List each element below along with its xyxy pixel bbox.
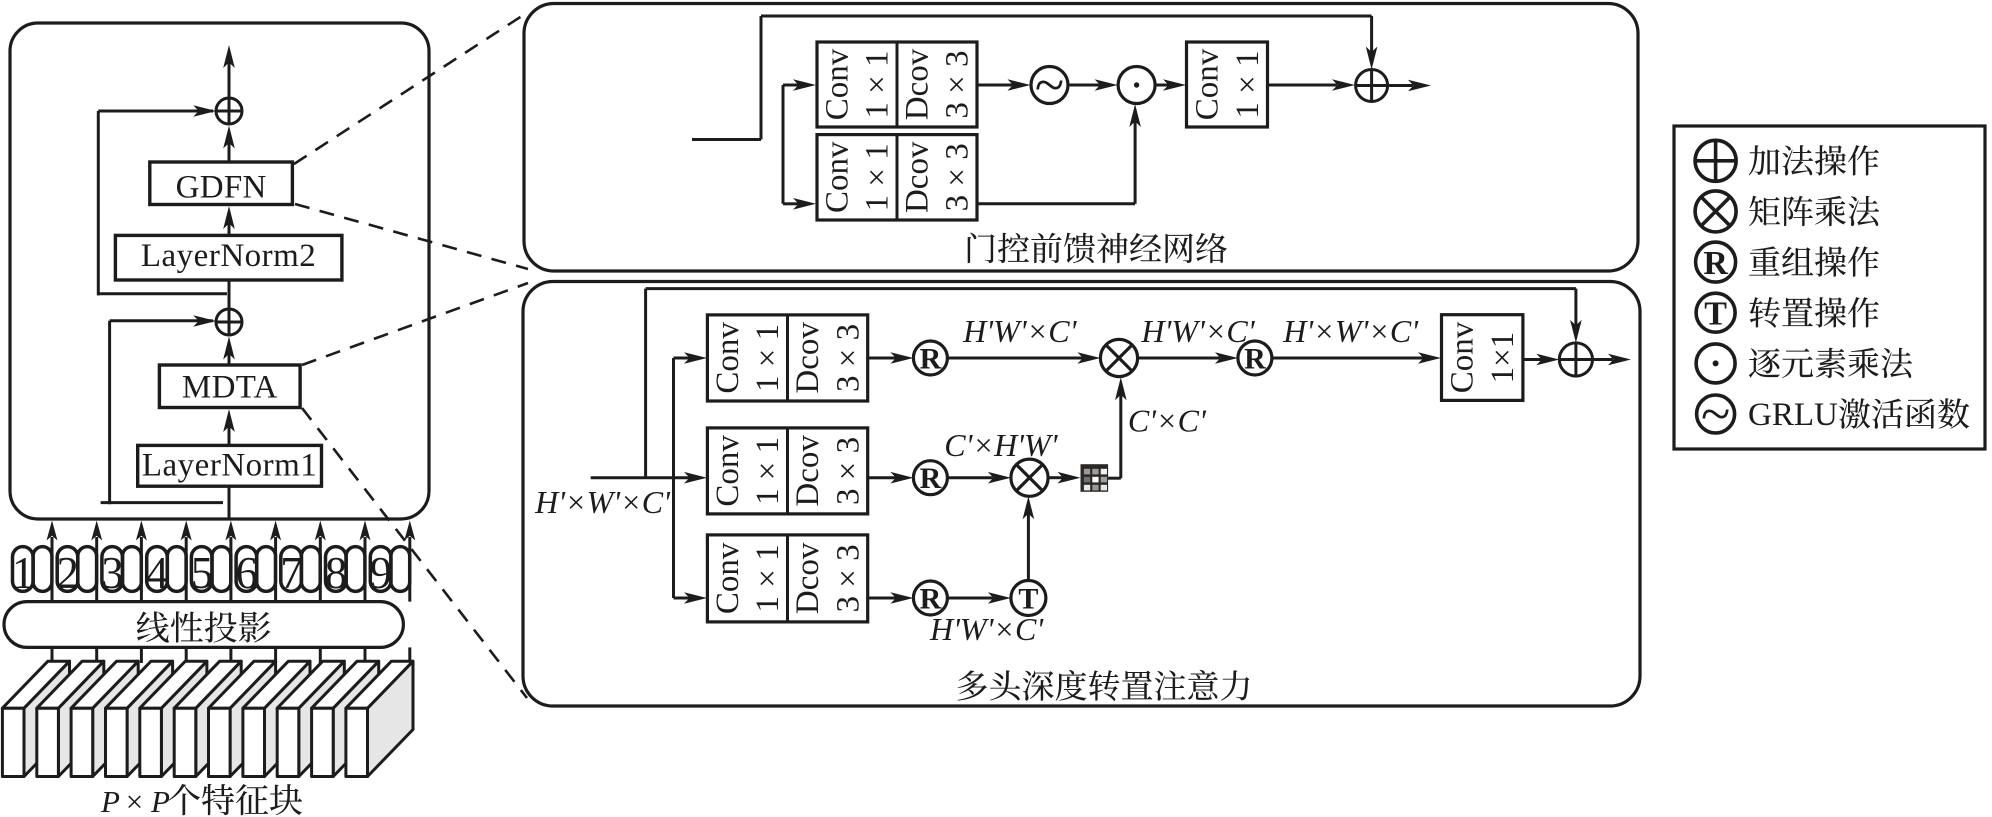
svg-text:3 × 3: 3 × 3	[940, 143, 976, 211]
svg-text:5: 5	[191, 548, 214, 598]
transformer block outer box	[10, 23, 429, 519]
svg-text:GDFN: GDFN	[176, 170, 267, 206]
wire LayerNorm1 to MDTA	[228, 424, 231, 445]
svg-text:×: ×	[126, 784, 143, 817]
svg-text:1 × 1: 1 × 1	[750, 437, 786, 505]
svg-text:Conv: Conv	[1189, 48, 1225, 120]
output Conv1x1 block (MDTA)	[1442, 315, 1523, 401]
svg-text:Dcov: Dcov	[790, 435, 826, 507]
gated feed-forward network box	[524, 4, 1638, 272]
svg-text:1 × 1: 1 × 1	[750, 544, 786, 612]
wires from feature blocks to linear projection	[51, 647, 54, 663]
q Conv1x1 + Dcov3x3 pair	[707, 315, 867, 401]
svg-text:LayerNorm1: LayerNorm1	[142, 448, 317, 484]
svg-text:R: R	[1244, 343, 1266, 376]
wire LayerNorm2 to GDFN	[228, 221, 231, 235]
svg-text:6: 6	[235, 548, 258, 598]
wire upper pair to GELU	[977, 84, 1013, 87]
wire transpose up to matmul2	[1027, 513, 1030, 581]
MDTA bypass top wire	[646, 287, 1576, 290]
svg-text:P: P	[150, 784, 170, 817]
dashed connector GDFN to gated FFN box (upper)	[294, 12, 528, 164]
arrow matmul2 to softmax	[1048, 476, 1063, 479]
svg-text:3 × 3: 3 × 3	[830, 437, 866, 505]
legend row: odot	[1696, 344, 1735, 383]
svg-text:1 × 1: 1 × 1	[1230, 50, 1266, 118]
svg-text:Conv: Conv	[710, 542, 746, 614]
svg-text:H'W'×C': H'W'×C'	[929, 611, 1044, 647]
bypass drop into adder	[1370, 16, 1373, 52]
svg-text:Conv: Conv	[820, 48, 856, 120]
adder node 1 (top)	[216, 98, 242, 124]
caption multi-head depth transposed attention	[958, 670, 987, 700]
svg-text:~: ~	[1035, 55, 1064, 115]
svg-text:R: R	[920, 462, 942, 495]
caption gated feed-forward network	[968, 233, 995, 264]
reshape node R (q)	[913, 341, 947, 375]
svg-text:1×1: 1×1	[1485, 332, 1521, 384]
MDTA block	[159, 365, 300, 408]
svg-text:MDTA: MDTA	[182, 370, 278, 406]
svg-text:3 × 3: 3 × 3	[830, 324, 866, 392]
GDFN block	[150, 162, 293, 205]
svg-text:7: 7	[280, 548, 303, 598]
svg-text:H'×W'×C': H'×W'×C'	[534, 484, 671, 520]
GDFN input wire	[692, 138, 761, 141]
wire matmul1 to reshape2	[1138, 357, 1220, 360]
reshape node R (k)	[913, 461, 947, 495]
lower Conv1x1 + Dcov3x3 pair	[817, 135, 977, 220]
matrix multiply node 2	[1011, 459, 1048, 496]
multi-head transposed attention box	[523, 282, 1640, 707]
transpose node T	[1011, 581, 1046, 616]
svg-text:H'W'×C': H'W'×C'	[1140, 313, 1255, 349]
GDFN bypass top wire	[761, 15, 1372, 18]
svg-text:Conv: Conv	[1444, 321, 1480, 393]
branch riser for q k v	[672, 358, 675, 598]
svg-text:2: 2	[57, 548, 80, 598]
token pills row 1-9	[13, 547, 34, 592]
matrix multiply node 1	[1100, 339, 1137, 376]
softmax attention-map icon	[1081, 464, 1109, 492]
output arrow top	[228, 62, 231, 98]
dashed connector GDFN to gated FFN box (lower)	[295, 204, 528, 269]
MDTA bypass riser	[644, 289, 647, 478]
dashed connector MDTA to attention box (upper)	[302, 283, 528, 365]
arrow v pair to reshape	[868, 597, 896, 600]
wire Conv1x1 to adder	[1268, 84, 1338, 87]
LayerNorm1 block	[138, 445, 322, 486]
svg-text:~: ~	[1701, 384, 1730, 444]
svg-text:R: R	[1703, 245, 1728, 282]
svg-text:Conv: Conv	[710, 322, 746, 394]
svg-text:3 × 3: 3 × 3	[830, 544, 866, 612]
output Conv1x1 block	[1187, 42, 1268, 127]
legend row: tilde	[1697, 395, 1735, 433]
legend row: oplus	[1695, 140, 1736, 181]
wire R to transpose	[947, 597, 993, 600]
wire softmax up to matmul1	[1108, 477, 1121, 480]
wire conv to output adder	[1523, 358, 1542, 361]
svg-text:1 × 1: 1 × 1	[860, 50, 896, 118]
svg-text:4: 4	[146, 548, 169, 598]
svg-text:C'×H'W': C'×H'W'	[944, 427, 1058, 463]
arrow into k conv pair	[674, 476, 691, 479]
svg-text:R: R	[920, 343, 942, 376]
reshape node R (out)	[1238, 341, 1272, 375]
arrow GELU to elementwise-mult	[1068, 84, 1100, 87]
legend row: R	[1696, 242, 1736, 282]
arrow into upper conv pair	[783, 84, 799, 87]
wire MDTA to adder2	[228, 351, 231, 365]
svg-text:3 × 3: 3 × 3	[940, 50, 976, 118]
svg-text:C'×C': C'×C'	[1128, 403, 1207, 439]
svg-text:Conv: Conv	[710, 435, 746, 507]
reshape node R (v)	[913, 581, 947, 615]
v Conv1x1 + Dcov3x3 pair	[707, 535, 867, 622]
svg-text:9: 9	[370, 548, 393, 598]
GDFN output arrow	[1388, 84, 1413, 87]
svg-text:8: 8	[325, 548, 348, 598]
svg-text:3: 3	[101, 548, 124, 598]
token input arrows into transformer block	[51, 537, 54, 602]
svg-text:1 × 1: 1 × 1	[750, 324, 786, 392]
adder node 2	[216, 309, 242, 335]
svg-text:Dcov: Dcov	[790, 542, 826, 614]
arrow mult to Conv1x1	[1155, 84, 1169, 87]
svg-text:Dcov: Dcov	[790, 322, 826, 394]
dashed connector MDTA to attention box (lower)	[302, 408, 527, 698]
wire LayerNorm1 input from bottom	[228, 486, 231, 519]
legend box	[1674, 126, 1985, 449]
wire R to matmul 1	[947, 357, 1083, 360]
wire reshape2 to conv	[1272, 357, 1424, 360]
svg-text:Dcov: Dcov	[900, 48, 936, 120]
svg-text:GRLU: GRLU	[1748, 397, 1838, 433]
wire R to matmul2	[947, 476, 993, 479]
legend row: T	[1696, 293, 1735, 332]
arrow into q conv pair	[674, 357, 691, 360]
GDFN residual bypass wire	[97, 111, 100, 295]
legend row: otimes	[1695, 191, 1736, 232]
arrow into lower conv pair	[783, 202, 799, 205]
upper Conv1x1 + Dcov3x3 pair	[817, 42, 977, 127]
GELU (~) node	[1031, 67, 1068, 104]
k Conv1x1 + Dcov3x3 pair	[707, 428, 867, 514]
linear projection pill	[4, 602, 403, 648]
MDTA output adder	[1559, 343, 1592, 376]
svg-text:H'×W'×C': H'×W'×C'	[1282, 313, 1419, 349]
arrow into v conv pair	[674, 597, 691, 600]
svg-text:LayerNorm2: LayerNorm2	[141, 238, 316, 274]
svg-text:1 × 1: 1 × 1	[860, 143, 896, 211]
elementwise multiply node	[1118, 67, 1155, 104]
svg-text:P: P	[100, 784, 120, 817]
svg-text:Conv: Conv	[820, 141, 856, 213]
bypass drop into output adder	[1574, 289, 1577, 326]
wire adder2 to LayerNorm2	[228, 280, 231, 309]
svg-text:H'W'×C': H'W'×C'	[962, 313, 1077, 349]
MDTA residual bypass wire	[108, 321, 111, 505]
GDFN branch riser	[782, 85, 785, 204]
wire GDFN to adder1	[228, 140, 231, 162]
P x P feature blocks (3D stack)	[24, 661, 70, 776]
svg-text:T: T	[1704, 296, 1727, 333]
svg-text:1: 1	[12, 548, 35, 598]
lower pair gating wire to mult	[977, 202, 1135, 205]
LayerNorm2 block	[115, 235, 342, 280]
arrow q pair to reshape	[868, 357, 896, 360]
MDTA output arrow	[1593, 358, 1614, 361]
svg-text:Dcov: Dcov	[900, 141, 936, 213]
GDFN output adder	[1356, 70, 1388, 102]
GDFN bypass riser	[760, 16, 763, 140]
MDTA input wire	[591, 476, 674, 479]
